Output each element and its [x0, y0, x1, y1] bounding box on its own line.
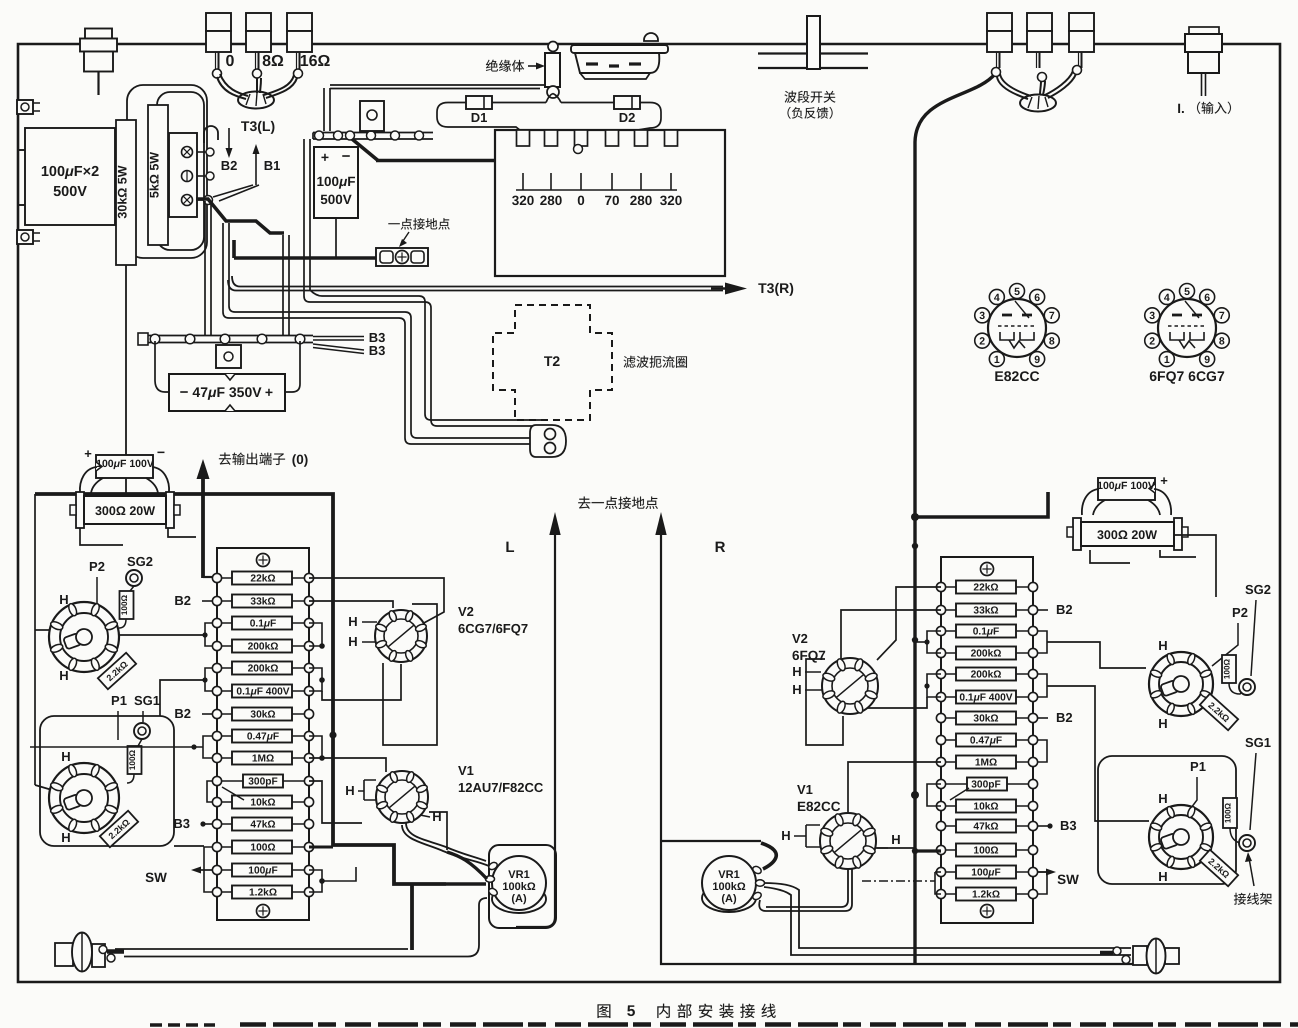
- svg-text:1MΩ: 1MΩ: [252, 754, 274, 765]
- svg-text:B2: B2: [221, 158, 238, 173]
- svg-text:6: 6: [1034, 292, 1040, 304]
- tube socket V1 (L): [376, 771, 428, 823]
- wire terminal-8 to grommet: [256, 78, 258, 93]
- svg-text:100Ω: 100Ω: [1223, 658, 1232, 679]
- component 200kΩ (R row 5): [956, 668, 1016, 681]
- ring terminal SG2 (L): [126, 570, 142, 586]
- svg-text:V1: V1: [797, 782, 813, 797]
- svg-text:47μF 350V: 47μF 350V: [192, 384, 262, 400]
- svg-text:T2: T2: [544, 353, 561, 369]
- svg-text:(0): (0): [292, 452, 309, 467]
- svg-text:100Ω: 100Ω: [128, 749, 137, 770]
- component 200kΩ (L row 4): [232, 640, 292, 653]
- svg-text:5: 5: [1014, 286, 1020, 298]
- tag strip R top screw: [981, 563, 994, 576]
- svg-text:−: −: [157, 444, 165, 460]
- wire bracket rows10-11 left? (L): [207, 781, 212, 802]
- arrow B2 (down): [228, 128, 230, 150]
- svg-text:H: H: [61, 830, 70, 845]
- svg-text:47kΩ: 47kΩ: [973, 822, 998, 833]
- component 100μF (L row 14): [232, 864, 292, 877]
- central divider wire (thick): [915, 74, 995, 963]
- tag strip L outline: [217, 548, 309, 920]
- svg-text:0.47μF: 0.47μF: [970, 736, 1002, 747]
- input jack R: [1189, 27, 1219, 34]
- svg-text:6FQ7: 6FQ7: [792, 648, 826, 663]
- svg-text:SW: SW: [145, 870, 167, 885]
- tag strip R outline: [941, 557, 1033, 923]
- resistor 100ohm (L,P1): [128, 746, 142, 774]
- svg-text:0: 0: [226, 53, 235, 70]
- svg-text:4: 4: [994, 292, 1000, 304]
- thick wire from terminal block (step): [196, 199, 284, 233]
- arrow L (one-point ground): [516, 534, 555, 927]
- component 300pF (R row 10): [967, 778, 1007, 791]
- svg-text:2: 2: [979, 335, 985, 347]
- potentiometer VR1 (L): [492, 885, 546, 913]
- svg-text:−: −: [180, 384, 189, 401]
- svg-text:200kΩ: 200kΩ: [971, 649, 1002, 660]
- svg-text:+: +: [84, 446, 92, 461]
- svg-text:T3(R): T3(R): [758, 280, 794, 296]
- wire V1 right lug down (L): [429, 812, 447, 850]
- component 1MΩ (R row 9): [956, 756, 1016, 769]
- svg-text:H: H: [1158, 716, 1167, 731]
- wire pair B3 upper: [313, 336, 364, 338]
- arrow T3(R): [725, 283, 747, 295]
- component 0.1μF (R row 3): [956, 625, 1016, 638]
- wire squiggle wiper (R): [766, 869, 848, 907]
- resistor 2.2k slant (L,P1): [100, 811, 138, 848]
- svg-text:P1: P1: [111, 693, 127, 708]
- tube socket P2 (R): [1149, 652, 1213, 716]
- svg-text:H: H: [59, 592, 68, 607]
- svg-text:100Ω: 100Ω: [250, 843, 275, 854]
- svg-text:B2: B2: [1056, 710, 1073, 725]
- component 10kΩ (R row 11): [956, 800, 1016, 813]
- resistor 100ohm (R,P1): [1223, 798, 1237, 828]
- wire to P2-R: [1047, 642, 1146, 668]
- speaker terminal L 16Ω: [287, 13, 312, 31]
- svg-text:VR1: VR1: [718, 869, 739, 881]
- component 300pF (L row 10): [243, 775, 283, 788]
- wire bundle vertical x286: [282, 235, 284, 336]
- wire loop inner around 5k resistor: [157, 92, 204, 250]
- svg-text:B1: B1: [264, 158, 281, 173]
- tube socket V2 (R): [822, 658, 878, 714]
- wire bracket below 300ohm (R): [1090, 550, 1130, 563]
- svg-text:B2: B2: [174, 593, 191, 608]
- svg-text:100μF×2: 100μF×2: [41, 164, 99, 180]
- RCA jack L: [55, 943, 73, 966]
- wire row2 to V2 top (L): [309, 601, 393, 608]
- wire pair VR1 to jack (R): [764, 883, 1131, 948]
- svg-text:300Ω 20W: 300Ω 20W: [1097, 528, 1157, 542]
- wire row10 to V1 area (L): [309, 781, 362, 823]
- svg-text:(A): (A): [721, 893, 737, 905]
- svg-text:B3: B3: [1060, 818, 1077, 833]
- wire long row8-9 to border (L): [30, 746, 203, 748]
- thick ground bus: [234, 256, 376, 260]
- component 1.2kΩ (R row 15): [956, 888, 1016, 901]
- svg-text:P1: P1: [1190, 759, 1206, 774]
- svg-text:B2: B2: [1056, 602, 1073, 617]
- chassis mounting tab lower-left: [17, 230, 33, 244]
- svg-text:V1: V1: [458, 763, 474, 778]
- wire pair to insulator: [330, 84, 545, 86]
- speaker terminal R 2: [1027, 13, 1052, 31]
- svg-text:H: H: [61, 749, 70, 764]
- tag strip L bottom screw: [257, 905, 270, 918]
- label B2 row7 (R): [1038, 717, 1048, 719]
- svg-text:H: H: [792, 682, 801, 697]
- wire 300ohm to P2 region (R): [1174, 535, 1216, 597]
- wire thick jack stub (R): [1100, 951, 1113, 956]
- wire bracket rows3-4 left (L): [205, 623, 212, 646]
- wire loop around P1 (L): [40, 716, 174, 846]
- label B2 row2 (R): [1038, 609, 1048, 611]
- svg-text:1: 1: [1164, 354, 1170, 366]
- input jack J-L (top-left): [85, 29, 112, 39]
- arrow R (one-point ground): [660, 534, 662, 841]
- arrow SW (L): [198, 869, 212, 871]
- svg-text:+: +: [321, 149, 329, 165]
- component 33kΩ (R row 2): [956, 604, 1016, 617]
- wire row2 to V2 top (R): [841, 610, 941, 659]
- terminal block TB1 with screws: [169, 133, 197, 217]
- tube socket V1 (R): [820, 813, 876, 869]
- svg-text:H: H: [1158, 869, 1167, 884]
- svg-text:30kΩ: 30kΩ: [250, 710, 275, 721]
- wire pair jack to VR1 (L): [115, 948, 408, 950]
- resistor 300ohm 20W (R): [1073, 518, 1081, 550]
- wire B1 leads: [213, 185, 253, 197]
- svg-text:200kΩ: 200kΩ: [248, 664, 279, 675]
- component 100Ω (L row 13): [232, 841, 292, 854]
- potentiometer VR1 (R): [702, 884, 756, 912]
- top connector block: [644, 33, 658, 41]
- svg-text:B3: B3: [173, 816, 190, 831]
- svg-text:8Ω: 8Ω: [262, 53, 284, 70]
- wire to V2 bottom (R): [850, 697, 927, 714]
- svg-text:300pF: 300pF: [248, 777, 277, 788]
- diode D1: [466, 96, 492, 109]
- svg-text:B3: B3: [369, 343, 386, 358]
- component 100μF (R row 14): [956, 866, 1016, 879]
- wire to P1-R: [1047, 686, 1149, 821]
- svg-text:H: H: [1158, 791, 1167, 806]
- wire squiggle V1-VR1 (L): [402, 825, 489, 866]
- wire bracket rows5-6 right (L): [309, 668, 322, 691]
- svg-text:6: 6: [1204, 292, 1210, 304]
- label B2 row7 (L): [202, 713, 212, 715]
- svg-text:SG2: SG2: [127, 554, 153, 569]
- capacitor 100uF 100V (L): [96, 455, 153, 478]
- wire bracket rows3-4 right (R): [1038, 631, 1047, 653]
- component 0.47μF (L row 8): [232, 730, 292, 743]
- wire run pair A (to grommet upper): [303, 139, 305, 296]
- wire hook over terminal block: [204, 126, 218, 133]
- wire run pair to T3R: [240, 286, 723, 288]
- label B3 row12 (L): [203, 823, 212, 825]
- wire bracket rows5-6 left (L): [205, 668, 212, 691]
- wire row10 bracket (R): [927, 784, 941, 806]
- svg-text:1: 1: [994, 354, 1000, 366]
- wire bundle vertical x226: [222, 223, 224, 312]
- wire bracket rows5-6 right (R): [1038, 674, 1047, 697]
- label band switch: [784, 91, 796, 103]
- label one-point-ground: [388, 223, 399, 224]
- wire cap leads (R): [1082, 489, 1099, 515]
- arrow SW (R): [1038, 871, 1048, 873]
- svg-text:1.2kΩ: 1.2kΩ: [249, 888, 277, 899]
- svg-text:0.1μF: 0.1μF: [250, 619, 277, 630]
- wire thick squiggle VR1 (R): [761, 843, 776, 869]
- svg-text:70: 70: [604, 193, 619, 208]
- svg-text:0.1μF: 0.1μF: [973, 627, 1000, 638]
- wire bracket rows3-4 right (L): [309, 623, 322, 646]
- svg-text:2: 2: [1149, 335, 1155, 347]
- diode D2: [614, 96, 640, 109]
- svg-text:300Ω 20W: 300Ω 20W: [95, 504, 155, 518]
- svg-text:4: 4: [1164, 292, 1170, 304]
- svg-text:+: +: [265, 384, 273, 400]
- svg-text:33kΩ: 33kΩ: [973, 606, 998, 617]
- speaker terminal R 1: [987, 13, 1012, 31]
- tube socket V2 (L): [375, 610, 427, 662]
- tube socket P1 (L): [49, 763, 119, 833]
- wire 47uF right lead: [285, 341, 300, 392]
- svg-text:T3(L): T3(L): [241, 118, 275, 134]
- svg-text:H: H: [1158, 638, 1167, 653]
- svg-text:E82CC: E82CC: [797, 799, 841, 814]
- resistor 300ohm 20W (L): [76, 492, 84, 528]
- speaker terminal L 8Ω: [246, 13, 271, 31]
- wire loop around P1 (R): [1098, 756, 1236, 884]
- svg-text:5kΩ 5W: 5kΩ 5W: [148, 152, 162, 198]
- resistor 2.2k slant (R,P2): [1200, 694, 1238, 731]
- cable grommet (to lower chassis): [530, 425, 566, 457]
- svg-text:300pF: 300pF: [971, 780, 1000, 791]
- svg-text:R: R: [715, 539, 726, 556]
- svg-text:320: 320: [660, 193, 683, 208]
- svg-text:100μF: 100μF: [971, 868, 1000, 879]
- wire row13 thick link (L): [309, 846, 333, 849]
- wire diag 300pF (L): [222, 787, 244, 800]
- label B2 row2 (L): [202, 600, 212, 602]
- junction dot thick line (L): [329, 731, 336, 738]
- capacitor 47uF 350V: [169, 374, 285, 411]
- chassis mounting tab upper-left: [17, 100, 33, 114]
- capacitor 100uF x2 500V: [25, 128, 115, 225]
- svg-text:E82CC: E82CC: [994, 368, 1039, 384]
- svg-text:100μF: 100μF: [248, 866, 277, 877]
- wire bracket-to-P1 (L): [160, 680, 205, 716]
- wire row9 to V1 (R): [848, 762, 941, 812]
- resistor 2.2k slant (R,P1): [1200, 850, 1238, 887]
- svg-text:V2: V2: [458, 604, 474, 619]
- wire bracket rows3-4 left (R): [927, 631, 941, 653]
- svg-text:200kΩ: 200kΩ: [248, 642, 279, 653]
- svg-text:D1: D1: [471, 110, 488, 125]
- svg-text:8: 8: [1049, 335, 1055, 347]
- svg-text:H: H: [891, 832, 900, 847]
- svg-text:100kΩ: 100kΩ: [502, 881, 535, 893]
- terminal strip (upper): [313, 132, 433, 134]
- wire row13 thick (R): [915, 849, 941, 852]
- R channel enclosure wire: [661, 841, 1135, 964]
- svg-text:B2: B2: [174, 706, 191, 721]
- thick diagonal wire to bus: [352, 139, 378, 161]
- svg-text:16Ω: 16Ω: [300, 53, 331, 70]
- svg-text:100Ω: 100Ω: [973, 846, 998, 857]
- svg-text:100kΩ: 100kΩ: [712, 881, 745, 893]
- wire box around VR1 (L): [489, 845, 556, 928]
- svg-text:H: H: [59, 668, 68, 683]
- svg-text:320: 320: [512, 193, 535, 208]
- thick bus wire (L ground): [35, 494, 446, 884]
- component 30kΩ (R row 7): [956, 712, 1016, 725]
- label B3 row12 (R): [1038, 825, 1050, 827]
- svg-text:12AU7/F82CC: 12AU7/F82CC: [458, 780, 544, 795]
- output transformer grommet T3(L): [238, 92, 274, 109]
- svg-text:22kΩ: 22kΩ: [973, 583, 998, 594]
- resistor 100ohm (L,P2): [120, 591, 134, 619]
- svg-text:H: H: [345, 783, 354, 798]
- svg-text:SG2: SG2: [1245, 582, 1271, 597]
- wire D1-D2 loop: [492, 102, 546, 104]
- pinout diagram 6FQ7 6CG7: [1158, 299, 1216, 357]
- arrow to output terminal (0): [201, 476, 205, 578]
- svg-text:1.2kΩ: 1.2kΩ: [972, 890, 1000, 901]
- component 10kΩ (L row 11): [232, 796, 292, 809]
- wire P2 to strip (L): [119, 634, 205, 636]
- wire terminal-0 to grommet: [217, 77, 246, 99]
- svg-text:7: 7: [1219, 310, 1225, 322]
- grommet T3R wires: [1020, 95, 1056, 112]
- ring terminal SG1 (R): [1239, 835, 1255, 851]
- caption figure 5: [598, 1004, 611, 1018]
- thick bus wire to panel: [376, 159, 495, 163]
- wire bracket rows14-15 right (R): [1038, 872, 1047, 894]
- svg-text:30kΩ: 30kΩ: [973, 714, 998, 725]
- scan edge band: [240, 1022, 1298, 1027]
- svg-text:H: H: [348, 614, 357, 629]
- component 200kΩ (R row 4): [956, 647, 1016, 660]
- power transformer panel: [495, 130, 725, 276]
- svg-text:H: H: [348, 634, 357, 649]
- pinout diagram E82CC: [988, 299, 1046, 357]
- svg-text:3: 3: [1149, 310, 1155, 322]
- svg-text:47kΩ: 47kΩ: [250, 820, 275, 831]
- voltage scale comb: [516, 189, 677, 191]
- component 33kΩ (L row 2): [232, 595, 292, 608]
- VR1 lug terminals (R): [752, 865, 763, 875]
- component 1.2kΩ (L row 15): [232, 886, 292, 899]
- svg-text:9: 9: [1034, 354, 1040, 366]
- wire run pair B (to grommet lower): [229, 306, 540, 438]
- RCA jack R: [1133, 946, 1147, 965]
- svg-text:−: −: [342, 148, 351, 165]
- panel lug circle: [574, 145, 583, 154]
- component 0.1μF 400V (L row 6): [232, 685, 292, 698]
- component 47kΩ (R row 12): [956, 820, 1016, 833]
- ring terminal SG1 (L): [134, 723, 150, 739]
- svg-text:P2: P2: [89, 559, 105, 574]
- svg-text:V2: V2: [792, 631, 808, 646]
- wire loop outer around 5k resistor: [127, 85, 207, 258]
- component 22kΩ (R row 1): [956, 581, 1016, 594]
- wire bundle vertical x207: [204, 201, 206, 336]
- svg-text:L: L: [505, 539, 514, 556]
- component 30kΩ (L row 7): [232, 708, 292, 721]
- component 0.1μF (L row 3): [232, 617, 292, 630]
- svg-text:SG1: SG1: [1245, 735, 1271, 750]
- svg-text:+: +: [1160, 473, 1168, 488]
- svg-text:9: 9: [1204, 354, 1210, 366]
- wire bracket below 300ohm (L): [80, 528, 123, 545]
- terminal strip (lower): [139, 335, 313, 337]
- resistor 30kOhm 5W: [116, 120, 136, 265]
- svg-text:0.1μF 400V: 0.1μF 400V: [236, 687, 289, 698]
- wire loop around V2 (L): [383, 604, 437, 745]
- svg-text:8: 8: [1219, 335, 1225, 347]
- resistor 5kOhm 5W: [148, 105, 168, 245]
- one-point ground strip: [376, 248, 428, 266]
- svg-text:30kΩ 5W: 30kΩ 5W: [116, 165, 130, 218]
- speaker terminal L 0: [206, 13, 231, 31]
- component 200kΩ (L row 5): [232, 662, 292, 675]
- tag strip L top screw: [257, 554, 270, 567]
- speaker terminal R 3: [1069, 13, 1094, 31]
- wire pair down to terminal strip: [323, 88, 325, 131]
- svg-text:100Ω: 100Ω: [120, 594, 129, 615]
- svg-text:100μF: 100μF: [317, 174, 356, 189]
- VR1 lug terminals (L): [488, 861, 499, 871]
- svg-text:H: H: [781, 828, 790, 843]
- svg-text:280: 280: [630, 193, 653, 208]
- svg-text:500V: 500V: [53, 184, 87, 200]
- resistor 2.2k slant (L,P2): [98, 653, 136, 690]
- svg-text:7: 7: [1049, 310, 1055, 322]
- tag strip R bottom screw: [981, 905, 994, 918]
- svg-text:1MΩ: 1MΩ: [975, 758, 997, 769]
- tube socket P1 (R): [1149, 805, 1213, 869]
- svg-text:10kΩ: 10kΩ: [250, 798, 275, 809]
- choke T2 (dashed): [493, 305, 612, 420]
- label go-to-one-point-ground: [578, 497, 590, 509]
- arrow B1 (up): [255, 152, 257, 185]
- wire cap leads (L): [80, 467, 97, 493]
- svg-text:280: 280: [540, 193, 563, 208]
- svg-text:0.47μF: 0.47μF: [247, 732, 279, 743]
- wire row9 to V1 top (L): [309, 758, 386, 772]
- junction dots on divider: [911, 513, 919, 521]
- wire pair B3 lower: [313, 344, 364, 350]
- label terminal frame: [1234, 893, 1246, 905]
- wire rows right brackets (L): [309, 736, 322, 758]
- resistor 100ohm (R,P2): [1222, 655, 1236, 683]
- tube socket P2 (L): [49, 602, 119, 672]
- svg-text:100μF 100V: 100μF 100V: [1097, 480, 1155, 492]
- wire row1 to V2 (L): [309, 578, 444, 624]
- thick stub divider to 300ohm R: [915, 492, 1048, 517]
- svg-text:5: 5: [627, 1003, 636, 1020]
- svg-text:3: 3: [979, 310, 985, 322]
- wire loop around V2 (R): [806, 659, 843, 745]
- component 47kΩ (L row 12): [232, 818, 292, 831]
- label insulator: [486, 60, 498, 72]
